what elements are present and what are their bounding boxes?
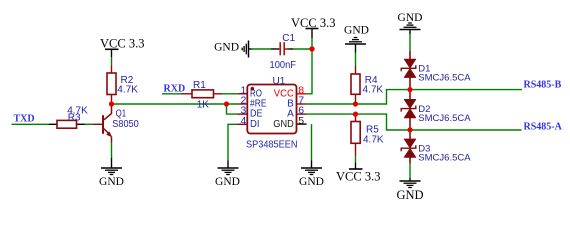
svg-text:1K: 1K [197,100,210,111]
svg-text:VCC 3.3: VCC 3.3 [336,169,380,183]
svg-text:SMCJ6.5CA: SMCJ6.5CA [418,73,471,84]
svg-text:GND: GND [99,176,124,188]
svg-text:GND: GND [215,176,240,188]
svg-text:4.7K: 4.7K [363,135,384,146]
svg-text:4.7K: 4.7K [117,84,138,95]
svg-text:TXD: TXD [14,113,35,124]
svg-text:VCC 3.3: VCC 3.3 [291,16,335,30]
svg-text:4: 4 [240,115,246,127]
svg-text:GND: GND [273,119,294,130]
svg-text:100nF: 100nF [270,60,297,71]
svg-text:GND: GND [214,42,239,54]
svg-text:RXD: RXD [164,83,186,94]
svg-text:GND: GND [344,24,369,36]
svg-text:S8050: S8050 [112,119,139,130]
svg-text:GND: GND [299,176,324,188]
svg-text:SMCJ6.5CA: SMCJ6.5CA [418,152,471,163]
svg-text:VCC 3.3: VCC 3.3 [100,36,144,50]
svg-text:GND: GND [398,12,423,24]
svg-text:U1: U1 [273,76,286,87]
svg-text:RS485-A: RS485-A [524,121,563,132]
svg-text:RS485-B: RS485-B [524,80,562,91]
svg-text:SMCJ6.5CA: SMCJ6.5CA [418,113,471,124]
svg-text:4.7K: 4.7K [363,85,384,96]
svg-text:SP3485EEN: SP3485EEN [246,140,298,151]
svg-text:GND: GND [396,188,423,202]
svg-text:5: 5 [298,115,304,127]
svg-text:DI: DI [250,119,260,130]
svg-text:C1: C1 [282,33,295,44]
svg-text:R3: R3 [68,112,81,123]
svg-text:R1: R1 [193,80,206,91]
